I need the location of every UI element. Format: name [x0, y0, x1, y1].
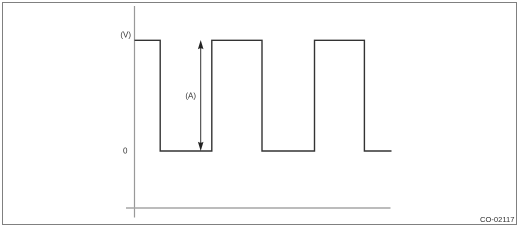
amplitude arrow shaft — [200, 46, 202, 145]
arrowhead bottom — [198, 142, 204, 151]
svg-text:CO-02117: CO-02117 — [480, 215, 514, 224]
svg-text:(A): (A) — [185, 92, 196, 101]
vertical axis (V axis) — [134, 6, 136, 218]
horizontal axis (time axis) — [126, 207, 391, 209]
square wave — [135, 40, 392, 151]
svg-text:(V): (V) — [120, 30, 131, 39]
arrowhead top — [198, 40, 204, 49]
svg-text:0: 0 — [123, 147, 128, 156]
